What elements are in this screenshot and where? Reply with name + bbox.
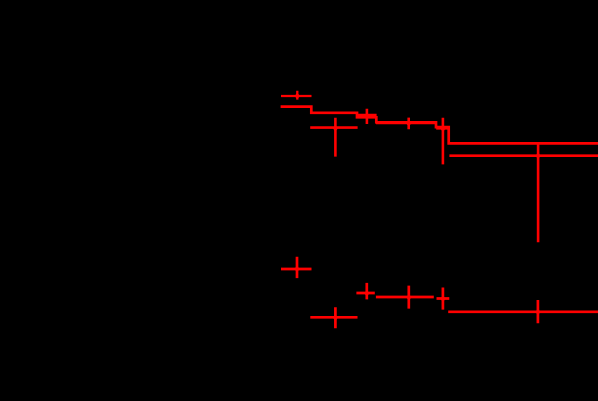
data point P3 error bars [358, 109, 377, 124]
data point Q1 diamond marker [294, 266, 299, 273]
data point Q3 error bars [356, 283, 374, 300]
data point P2 error bars [310, 118, 357, 157]
data point P6 diamond marker [535, 152, 540, 159]
data point P5 diamond marker [440, 125, 445, 132]
data point P4 error bars [376, 118, 436, 130]
data point Q3 diamond marker [364, 290, 369, 297]
data point Q2 error bars [310, 307, 357, 328]
data point Q6 error bars [448, 300, 598, 323]
data point P6 error bars [449, 143, 598, 242]
data point Q2 diamond marker [333, 314, 338, 321]
data point Q4 error bars [376, 286, 434, 309]
data point Q6 diamond marker [535, 308, 540, 315]
data point Q1 error bars [281, 257, 312, 278]
data point Q4 diamond marker [406, 294, 411, 301]
data point Q5 error bars [437, 288, 450, 310]
data point P1 diamond marker [295, 93, 300, 100]
data point Q5 diamond marker [440, 295, 445, 302]
data point P3 diamond marker [364, 113, 369, 120]
data point P2 diamond marker [333, 125, 338, 132]
data point P4 diamond marker [406, 120, 411, 127]
stepped histogram line (top light curve, binned model) [281, 107, 598, 144]
data point P1 error bars [281, 91, 312, 100]
data point P5 error bars [436, 118, 449, 165]
